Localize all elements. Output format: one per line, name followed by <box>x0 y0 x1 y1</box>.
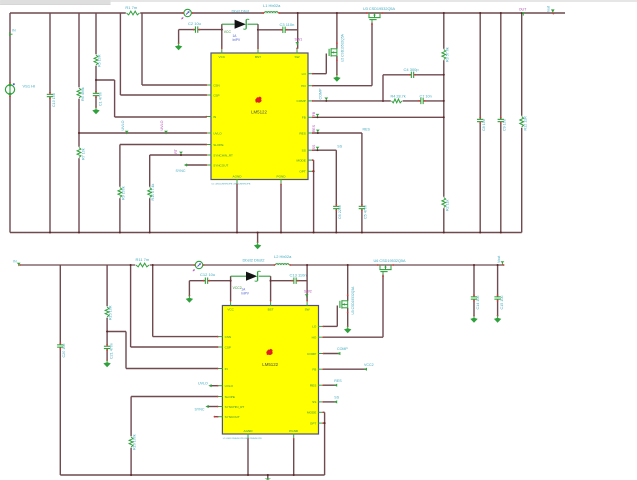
label C7 10n <box>420 94 432 98</box>
capacitor C9 <box>498 117 504 125</box>
svg-text:PGND: PGND <box>289 429 299 433</box>
svg-text:R15 10R: R15 10R <box>109 305 113 320</box>
wire SS line <box>312 150 336 232</box>
wire SLOPE line <box>120 145 207 233</box>
node SS2 tag <box>334 396 340 404</box>
label L1 Hb02a <box>263 3 281 8</box>
svg-text:U5 CSD19532Q5A: U5 CSD19532Q5A <box>351 286 355 315</box>
wire BST column <box>257 24 259 49</box>
U1 pin HO <box>301 84 313 88</box>
label R10 27.4k <box>151 184 155 201</box>
svg-text:SYNCOUT: SYNCOUT <box>213 163 228 167</box>
U4 pin SYNCHIN_RT <box>217 405 245 409</box>
svg-text:C20 10u: C20 10u <box>62 344 66 358</box>
node FB tag <box>312 111 319 118</box>
label LM5122 U4 <box>262 362 278 367</box>
svg-text:PGND: PGND <box>277 175 287 179</box>
node SYNC2 tag <box>195 405 209 411</box>
wire R5 column <box>95 13 97 80</box>
svg-text:R3 57.6k: R3 57.6k <box>445 47 449 62</box>
U4 pin AGND <box>244 429 254 440</box>
U4 pin SLOPE <box>217 395 235 399</box>
svg-text:SS: SS <box>337 145 342 149</box>
U4 pin LO <box>312 325 324 329</box>
node SS label teal <box>337 145 342 149</box>
svg-text:CSN: CSN <box>225 335 232 339</box>
transistor U5 <box>340 294 349 313</box>
U4 pin IN <box>217 367 228 371</box>
wire R15/C21 node to IN corner <box>106 330 126 368</box>
svg-text:LO: LO <box>302 72 307 76</box>
capacitor C21 <box>104 344 110 352</box>
capacitor C8 <box>477 117 483 125</box>
svg-text:R6 499k: R6 499k <box>81 87 85 101</box>
wire VCC2 column <box>230 276 232 301</box>
svg-text:C6 220n: C6 220n <box>338 205 342 219</box>
svg-text:U1 LM5122MH/NOPB LM5122MH/NOPB: U1 LM5122MH/NOPB LM5122MH/NOPB <box>223 438 262 440</box>
U4 pin CSP <box>217 345 231 349</box>
svg-text:FB: FB <box>312 368 316 372</box>
U4 pin SYNCOUT <box>217 415 240 419</box>
resistor R15 <box>105 306 110 317</box>
U1 pin BST <box>255 48 261 59</box>
U4 pin SS <box>312 400 324 404</box>
node RES tag magenta <box>312 124 320 134</box>
svg-text:RES: RES <box>299 131 305 135</box>
label R16 100k <box>133 434 137 450</box>
label R15 10R <box>109 305 113 320</box>
U1 pin RES <box>299 131 313 135</box>
wire C2 line <box>179 30 222 43</box>
junction COMP node <box>382 100 384 102</box>
U4 pin VCC <box>227 300 234 311</box>
svg-text:U2 CSD19532Q5A: U2 CSD19532Q5A <box>340 33 344 62</box>
wire SS2 stub <box>323 401 336 403</box>
wire C15 column <box>497 264 499 316</box>
label LM5122 U1 <box>251 110 267 115</box>
svg-text:C10 10u: C10 10u <box>52 93 56 107</box>
svg-text:AGND: AGND <box>244 429 254 433</box>
wire R15 column <box>106 265 108 360</box>
capacitor C6 <box>333 204 339 212</box>
wire COMP to C4 <box>382 75 384 101</box>
resistor R11 sense <box>135 263 149 268</box>
node COMP tag <box>319 88 329 102</box>
label R5 10R <box>98 54 102 67</box>
node SS tag magenta <box>312 144 319 151</box>
svg-text:RES: RES <box>312 124 316 132</box>
ammeter current probe <box>181 9 193 19</box>
capacitor C7 <box>418 98 426 104</box>
resistor R9 <box>118 187 123 198</box>
wire CSP column <box>120 13 206 95</box>
svg-text:Dbst2 Dbst2: Dbst2 Dbst2 <box>243 257 266 262</box>
ground below C2 <box>175 42 182 50</box>
wire C4 line <box>383 74 444 76</box>
svg-text:RES: RES <box>334 379 342 383</box>
U1 pin SYNCOUT <box>206 163 229 167</box>
wire AGND2 stub <box>247 439 249 476</box>
svg-text:CSP: CSP <box>225 345 231 349</box>
capacitor C10 <box>47 92 53 100</box>
wire PGND stub <box>280 184 282 233</box>
svg-text:COMP: COMP <box>319 88 323 100</box>
resistor R16 <box>129 436 134 447</box>
label initial condition <box>233 34 241 42</box>
wire bottom GND rail 2 <box>60 474 324 476</box>
label VCC2 net <box>233 286 242 290</box>
capacitor C2 <box>193 26 201 32</box>
U1 pin CSN <box>206 83 220 87</box>
wire RES2 stub <box>323 384 336 386</box>
label VCC net <box>224 30 232 34</box>
capacitor C13 <box>291 278 299 284</box>
wire UVLO2 stub <box>211 385 219 387</box>
wire VCC column <box>221 24 223 49</box>
svg-text:CSP: CSP <box>213 93 219 97</box>
svg-text:C13 110n: C13 110n <box>290 272 307 277</box>
node IN tag at source top <box>9 29 16 37</box>
wire BST2 column <box>270 276 272 301</box>
U1 pin OPT <box>299 170 313 174</box>
U1 pin SYNCHIN_RT <box>206 153 234 157</box>
svg-text:C7 10n: C7 10n <box>420 94 432 98</box>
wire HO2 gate line <box>323 275 384 338</box>
node SW1 tag <box>295 38 303 46</box>
svg-text:UVLO: UVLO <box>198 382 208 386</box>
node IN tag bottom left <box>13 259 21 266</box>
U4 pin PGND <box>289 429 299 440</box>
transistor U3 <box>366 12 383 23</box>
svg-text:LM5122: LM5122 <box>251 110 267 115</box>
wire C10 column <box>49 13 51 233</box>
svg-text:BST: BST <box>255 55 261 59</box>
capacitor C20 <box>57 342 63 350</box>
svg-text:R16 100k: R16 100k <box>133 434 137 450</box>
label U4 part number <box>223 438 262 440</box>
resistor R10 <box>147 187 152 198</box>
svg-text:R4 28.7k: R4 28.7k <box>391 94 406 98</box>
svg-text:LO: LO <box>312 325 317 329</box>
label C4 300p <box>404 67 420 72</box>
label R9 100k <box>121 186 125 200</box>
label R7 10k <box>82 148 86 160</box>
node COMP2 tag <box>337 347 348 355</box>
svg-text:VCC: VCC <box>227 307 234 311</box>
label U6 CSD19532Q5A <box>374 259 407 263</box>
label L2 Hb02a <box>274 254 292 259</box>
svg-text:IniPV: IniPV <box>241 291 249 295</box>
svg-text:R9 100k: R9 100k <box>121 186 125 200</box>
ground below C15 <box>494 315 501 323</box>
svg-text:R12 11R: R12 11R <box>524 116 528 131</box>
junction VCC/C2 <box>221 29 223 31</box>
label R11 7m <box>136 257 150 262</box>
node RES label teal <box>363 127 371 131</box>
wire COMP2 stub <box>323 353 339 355</box>
wire C9 column <box>500 12 502 233</box>
label Dbst2 Dbst2 <box>243 257 266 262</box>
wire SW column <box>297 12 299 49</box>
svg-text:OPT: OPT <box>299 170 305 174</box>
wire SYNCIN2 stub <box>208 406 219 408</box>
wire C1 branch <box>95 79 97 107</box>
ground below U2 <box>333 74 340 82</box>
window chrome top strip <box>0 0 637 4</box>
svg-text:L2 Hb02a: L2 Hb02a <box>274 254 292 259</box>
svg-text:R5 10R: R5 10R <box>98 54 102 67</box>
svg-text:COMP: COMP <box>337 347 348 351</box>
svg-text:C21 470n: C21 470n <box>109 343 113 359</box>
U1 pin IN <box>206 115 217 119</box>
svg-text:SW1: SW1 <box>295 38 303 42</box>
wire MODE2/OPT2 column <box>323 412 325 475</box>
node UVLO tag teal <box>121 120 129 134</box>
wire C13 line <box>271 280 308 282</box>
resistor R5 <box>94 54 99 65</box>
svg-text:IN: IN <box>213 115 216 119</box>
ground below C12 <box>186 295 193 303</box>
svg-text:UVLO: UVLO <box>160 120 164 130</box>
svg-text:SS: SS <box>312 400 316 404</box>
wire PGND2 stub <box>293 439 295 476</box>
svg-text:OUT: OUT <box>519 7 527 11</box>
svg-text:C14 10u: C14 10u <box>476 296 480 310</box>
resistor R3 <box>441 49 446 60</box>
svg-text:Dbst Dbst: Dbst Dbst <box>232 9 250 14</box>
U1 pin SW <box>295 48 300 59</box>
transistor U5 drain/source wires <box>347 264 349 326</box>
svg-text:C4 300p: C4 300p <box>404 67 420 72</box>
svg-text:SW: SW <box>305 307 310 311</box>
svg-text:COMP: COMP <box>307 352 316 356</box>
label Dbst Dbst <box>232 9 250 14</box>
wire C8 column <box>479 12 481 233</box>
U4 pin CSN <box>217 335 231 339</box>
resistor R1 sense <box>126 11 140 16</box>
inductor L2 <box>273 264 291 266</box>
wire R5/C1 node to IN corner <box>96 80 115 117</box>
svg-text:VCC2: VCC2 <box>364 363 374 367</box>
wire UVLO divider column <box>78 13 80 233</box>
U4 pin BST <box>268 300 274 311</box>
U4 pin UVLO <box>217 384 234 388</box>
label R4 28.7k <box>391 94 406 98</box>
U1 pin VCC <box>219 48 226 59</box>
capacitor C3 <box>280 27 288 33</box>
label R12 11R <box>524 116 528 131</box>
U1 pin SS <box>302 149 314 153</box>
svg-text:FB: FB <box>312 111 316 116</box>
node RES2 tag <box>334 379 342 387</box>
wire UVLO line <box>78 132 207 134</box>
svg-text:LM5122: LM5122 <box>262 362 278 367</box>
node RT tag <box>174 149 183 156</box>
svg-text:UVLO: UVLO <box>121 120 125 130</box>
U1 pin SLOPE <box>206 143 224 147</box>
svg-text:SW: SW <box>295 55 300 59</box>
svg-text:SS: SS <box>312 144 316 149</box>
svg-text:SYNC: SYNC <box>195 407 205 411</box>
label C1 470n <box>98 92 102 106</box>
svg-text:UVLO: UVLO <box>225 384 234 388</box>
wire RES line <box>312 133 362 233</box>
svg-text:HO: HO <box>301 84 306 88</box>
label C21 470n <box>109 343 113 359</box>
ground below U5 <box>344 325 351 333</box>
op-amp U4 LM5122 body <box>222 306 318 435</box>
wire C12 line <box>189 281 230 296</box>
wire CSP2 column <box>130 264 219 347</box>
svg-text:SYNC: SYNC <box>176 169 186 173</box>
svg-text:MODE: MODE <box>307 411 316 415</box>
inductor L1 <box>262 12 280 14</box>
svg-text:CSN: CSN <box>213 83 220 87</box>
node SYNC tag on SYNCOUT <box>176 163 188 172</box>
U1 pin CSP <box>206 93 220 97</box>
svg-text:RT: RT <box>174 149 178 153</box>
label R3 57.6k <box>445 47 449 62</box>
wire feedback column R3 <box>443 12 445 233</box>
wire top VIN rail <box>10 12 565 14</box>
U4 pin HO <box>312 336 324 340</box>
wire SLOPE2 line <box>131 397 218 476</box>
resistor R7 <box>77 147 82 158</box>
diode Dbst <box>222 19 258 29</box>
junctions on bottom rail <box>49 231 502 233</box>
wire IN pin line <box>115 116 207 118</box>
wire LO2 gate line <box>323 306 337 327</box>
junction VCC2/C12 <box>230 280 232 282</box>
label C9 10u <box>503 119 507 131</box>
wire load column <box>521 12 523 233</box>
svg-text:SS: SS <box>302 149 306 153</box>
svg-text:Iout: Iout <box>546 6 550 12</box>
node UVLO2 tag <box>198 382 212 388</box>
svg-text:SW2: SW2 <box>304 290 312 294</box>
svg-text:VCC: VCC <box>224 30 232 34</box>
U4 pin SW <box>305 300 310 311</box>
svg-text:U3 CSD19532Q5A: U3 CSD19532Q5A <box>363 7 396 11</box>
svg-text:COMP: COMP <box>297 99 306 103</box>
label C6 220n <box>338 205 342 219</box>
capacitor C4 <box>409 72 417 78</box>
wire SYNCOUT stub <box>187 164 207 166</box>
U4 pin FB <box>312 368 324 372</box>
transistor U2 <box>329 42 338 61</box>
node Vout tag <box>497 256 505 266</box>
U1 pin FB <box>302 116 314 120</box>
resistor R6 <box>77 87 82 98</box>
svg-text:C12 10u: C12 10u <box>200 272 215 277</box>
node VCC2 tag on FB <box>364 363 374 371</box>
wire LO gate line <box>312 54 326 74</box>
diode Dbst2 <box>231 271 271 281</box>
U4 pin MODE <box>307 411 324 415</box>
ground below C21 <box>103 359 110 367</box>
label R6 499k <box>81 87 85 101</box>
wire FB line <box>312 116 444 118</box>
capacitor C15 <box>494 294 500 302</box>
U4 pin COMP <box>307 352 324 356</box>
resistor R12 load <box>519 116 524 128</box>
svg-text:SYNCOUT: SYNCOUT <box>225 415 240 419</box>
label R1 7m <box>125 5 137 10</box>
svg-text:UVLO: UVLO <box>213 131 222 135</box>
svg-text:RES: RES <box>363 127 371 131</box>
svg-text:RES: RES <box>310 384 316 388</box>
U1 pin LO <box>302 72 314 76</box>
svg-text:C3 110n: C3 110n <box>280 22 295 27</box>
label VS1 HI <box>23 84 36 89</box>
svg-text:AGND: AGND <box>233 175 243 179</box>
label C5 470n <box>364 205 368 219</box>
transistor U2 drain/source wires <box>336 12 338 75</box>
wire SYNCHIN_RT line <box>150 155 207 233</box>
label C20 10u <box>62 344 66 358</box>
svg-text:MODE: MODE <box>297 158 306 162</box>
svg-text:VCC: VCC <box>219 55 226 59</box>
capacitor C14 <box>471 294 477 302</box>
U1 pin MODE <box>297 158 314 162</box>
svg-text:U6 CSD19532Q5A: U6 CSD19532Q5A <box>374 259 407 263</box>
U1 pin COMP <box>297 99 314 103</box>
capacitor C5 <box>359 204 365 212</box>
svg-text:C8 10u: C8 10u <box>482 119 486 131</box>
svg-text:HO: HO <box>312 336 317 340</box>
U1 pin PGND <box>277 175 287 186</box>
label C12 10u <box>200 272 215 277</box>
svg-text:C5 470n: C5 470n <box>364 205 368 219</box>
svg-text:IN: IN <box>225 367 228 371</box>
label C13 110n <box>290 272 307 277</box>
current probe Iout <box>546 6 554 14</box>
svg-text:IN: IN <box>12 29 16 33</box>
svg-text:U1 LM5122MH/NOPB LM5122MH/NOPB: U1 LM5122MH/NOPB LM5122MH/NOPB <box>212 184 251 186</box>
wire SW2 column <box>306 264 308 301</box>
svg-text:IniPV: IniPV <box>233 38 241 42</box>
wire FB2 stub <box>323 368 366 370</box>
node SW2 tag <box>304 290 312 298</box>
svg-text:VS1 HI: VS1 HI <box>23 84 36 89</box>
ground main <box>254 231 261 249</box>
svg-text:R1 7m: R1 7m <box>125 5 137 10</box>
svg-text:FB: FB <box>302 116 306 120</box>
svg-text:R2 11k: R2 11k <box>445 199 449 211</box>
voltage source VS1 <box>5 82 14 97</box>
node UVLO tag magenta <box>160 120 168 134</box>
svg-text:R7 10k: R7 10k <box>82 148 86 160</box>
U1 pin AGND <box>233 175 243 186</box>
capacitor C1 <box>93 91 99 99</box>
label U2 CSD19532Q5A <box>340 33 344 62</box>
svg-text:SYNCHIN_RT: SYNCHIN_RT <box>213 153 233 157</box>
wire left VS1 column <box>9 13 11 233</box>
wire C20 column <box>59 265 61 475</box>
svg-text:R10 27.4k: R10 27.4k <box>151 184 155 201</box>
svg-text:SYNCHIN_RT: SYNCHIN_RT <box>225 405 245 409</box>
U1 pin UVLO <box>206 131 223 135</box>
wire bottom GND rail <box>10 232 522 234</box>
label C15 10u <box>500 296 504 310</box>
svg-text:C15 10u: C15 10u <box>500 296 504 310</box>
wire CSN2 column <box>152 264 219 337</box>
svg-text:R11 7m: R11 7m <box>136 257 150 262</box>
label U1 part number <box>212 184 251 186</box>
wire COMP line <box>312 100 444 102</box>
svg-text:BST: BST <box>268 307 274 311</box>
label C8 10u <box>482 119 486 131</box>
